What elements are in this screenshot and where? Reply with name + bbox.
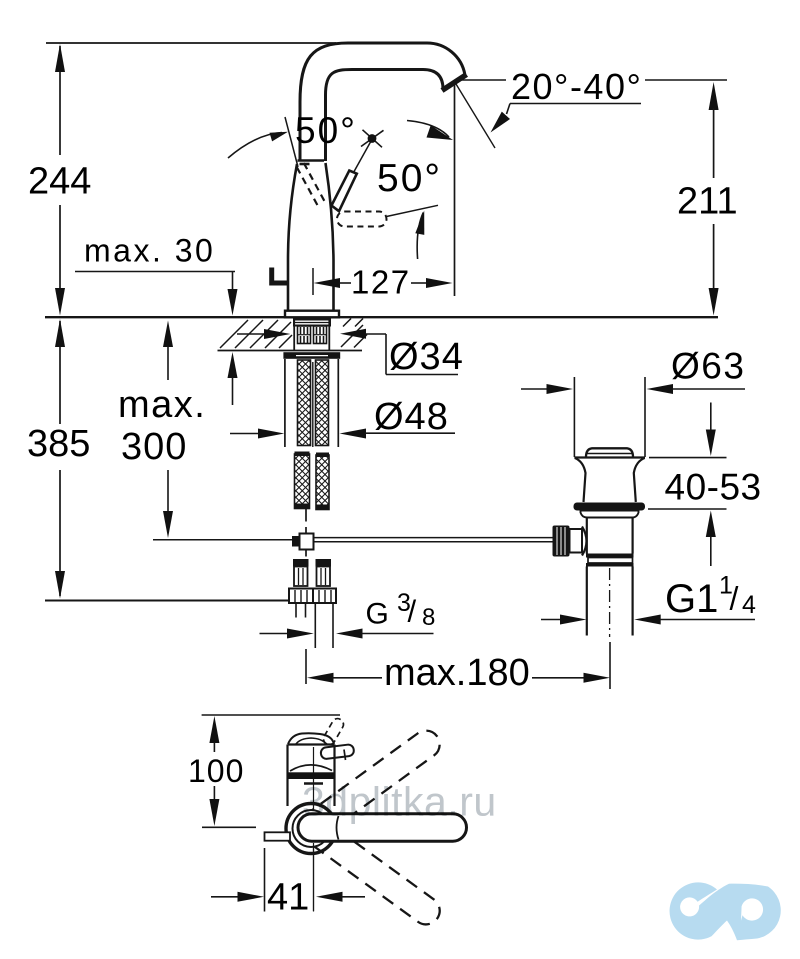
handle horizontal axis line xyxy=(387,205,439,216)
pivot cross xyxy=(361,130,384,146)
dimension 40-53 extension lines xyxy=(649,457,727,459)
bottom tick (handle centerline) xyxy=(202,826,256,828)
max.300 lower line + arrow xyxy=(167,470,169,513)
threaded tube right xyxy=(314,326,327,344)
countertop deck line xyxy=(45,316,718,318)
base plate xyxy=(285,311,339,318)
solid handle top view xyxy=(298,814,467,841)
dimension max.180 xyxy=(305,649,307,684)
hose envelope lines xyxy=(284,359,286,447)
drain flange xyxy=(574,503,646,511)
drain upper body xyxy=(581,511,639,518)
pull rod clevis xyxy=(292,536,300,547)
spout joint line xyxy=(298,159,325,162)
pop-up rod hook xyxy=(272,281,289,286)
dimension 385 vertical line xyxy=(59,321,61,424)
svg-text:/: / xyxy=(730,581,739,617)
dark band xyxy=(288,772,335,779)
svg-text:Ø63: Ø63 xyxy=(671,346,745,387)
joint arc xyxy=(290,765,332,771)
joint tick xyxy=(300,163,310,166)
svg-text:max.180: max.180 xyxy=(384,652,530,694)
arrow down 385 xyxy=(55,571,65,599)
spout head top view dome xyxy=(288,733,334,744)
shank outer envelope xyxy=(293,318,295,351)
max.30 leader underline xyxy=(75,271,235,273)
svg-text:300: 300 xyxy=(121,426,187,468)
drain pop-up cap xyxy=(586,448,633,457)
max.300 upper arrow xyxy=(163,321,173,348)
20-40 underline xyxy=(510,103,641,105)
svg-text:50°: 50° xyxy=(295,110,357,151)
svg-text:50°: 50° xyxy=(377,157,442,200)
tip face angled reference line xyxy=(456,84,495,148)
svg-text:max. 30: max. 30 xyxy=(84,233,215,269)
flexible hose lower left xyxy=(295,454,310,509)
svg-text:G1: G1 xyxy=(665,577,718,621)
svg-text:4: 4 xyxy=(742,591,756,619)
flexible hose upper left xyxy=(298,360,311,446)
curved arrow 50 deg left xyxy=(228,133,282,159)
curved arrow 50 deg from below xyxy=(417,213,423,260)
svg-text:3dplitka.ru: 3dplitka.ru xyxy=(302,779,497,825)
knob stem xyxy=(570,529,583,553)
body rectangle top view xyxy=(288,743,335,745)
flexible hose lower right xyxy=(316,455,329,510)
connector nut right xyxy=(313,589,336,604)
svg-text:20°-40°: 20°-40° xyxy=(511,66,642,107)
top tick line (spout tip level) xyxy=(202,714,340,716)
locknut under deck xyxy=(283,352,340,359)
svg-text:40-53: 40-53 xyxy=(665,467,762,508)
svg-text:127: 127 xyxy=(351,264,411,301)
leader line to 20-40 label xyxy=(456,79,506,81)
drain Ø63 extension lines xyxy=(573,377,575,457)
svg-text:G: G xyxy=(366,598,389,631)
handle axis thin line xyxy=(354,139,373,173)
40-53 lower arrow xyxy=(706,511,716,538)
faucet body left edge xyxy=(288,164,297,311)
arrow up 385 xyxy=(55,319,65,347)
handle solid lever xyxy=(332,171,357,212)
dimension G3/8 xyxy=(260,633,288,635)
dimension 41 xyxy=(264,848,266,912)
dimension Ø63 xyxy=(521,388,547,390)
svg-text:8: 8 xyxy=(422,604,435,631)
dimension 244 vertical line xyxy=(59,46,61,155)
svg-text:385: 385 xyxy=(27,423,90,465)
arrow up 244 xyxy=(55,44,65,72)
curved arrow 50 deg to vertical line xyxy=(407,121,449,138)
max.30 vertical below deck xyxy=(232,377,234,405)
dimension 127 xyxy=(312,268,314,295)
dimension 211 vertical xyxy=(709,82,719,110)
small tick below band xyxy=(304,782,323,784)
drain shoulder xyxy=(574,456,645,458)
spout tip vertical extension line xyxy=(454,82,456,296)
G3/8 connector right xyxy=(316,559,332,567)
dimension Ø34 arrows xyxy=(237,333,265,335)
arrow down to deck top xyxy=(228,289,238,316)
supply tube stubs xyxy=(295,603,297,618)
extension line at pull-rod level xyxy=(153,539,292,541)
G3/8 connector left xyxy=(293,559,309,567)
dashed handle position lower xyxy=(292,808,445,929)
svg-text:Ø48: Ø48 xyxy=(374,396,449,438)
max.30 vertical above deck xyxy=(232,272,234,292)
baseline under hoses xyxy=(45,600,289,602)
body top view centerline xyxy=(313,747,315,911)
dimension 100 xyxy=(209,716,219,743)
deck underside line xyxy=(218,350,363,352)
solid side pin xyxy=(320,744,354,759)
svg-text:211: 211 xyxy=(677,181,738,223)
tailpipe centerline xyxy=(609,568,611,637)
drain body xyxy=(586,518,588,554)
horizontal pop-up rod xyxy=(314,537,554,539)
dashed mini lever up xyxy=(322,717,346,747)
shank washer under base xyxy=(294,320,330,326)
handle tilt reference line xyxy=(285,117,298,167)
spout outer profile xyxy=(300,43,465,161)
deck hatching left xyxy=(220,320,292,348)
threaded tube left xyxy=(298,326,311,344)
valve boss inner circle xyxy=(293,810,330,847)
svg-text:100: 100 xyxy=(188,753,244,789)
faucet body right edge xyxy=(326,163,334,311)
spout inner profile xyxy=(326,70,444,162)
arrow up to deck underside xyxy=(228,352,238,378)
svg-text:/: / xyxy=(408,594,417,629)
knurled adjuster knob xyxy=(553,526,570,557)
arrow down 244 xyxy=(55,288,65,316)
handle collar arc xyxy=(337,816,339,840)
deck hatching right xyxy=(341,319,367,348)
svg-text:max.: max. xyxy=(118,384,206,426)
svg-text:41: 41 xyxy=(267,877,309,919)
40-53 upper arrow xyxy=(710,403,712,433)
dashed handle position upper xyxy=(292,725,445,846)
dimension G1 1/4 xyxy=(541,619,561,621)
drain tailpipe xyxy=(586,567,588,636)
dimension Ø48 arrows xyxy=(230,433,259,435)
flexible hose upper right xyxy=(316,360,329,446)
drain lower joint xyxy=(586,554,634,558)
pull rod stub top view xyxy=(265,832,291,840)
connector nut left xyxy=(289,589,313,604)
20-40 leader arrowhead xyxy=(491,112,511,133)
pull rod between hoses xyxy=(312,362,314,447)
pull rod lower segments xyxy=(305,509,307,522)
handle horizontal dashed position xyxy=(337,212,387,227)
svg-text:Ø34: Ø34 xyxy=(389,336,464,378)
svg-text:244: 244 xyxy=(28,161,91,203)
spout tip face xyxy=(442,75,467,91)
handle dashed position lines xyxy=(297,167,319,208)
valve boss outer circle xyxy=(286,804,336,854)
drain neck sides xyxy=(575,458,586,502)
lever ball joint xyxy=(582,527,587,556)
top extension line (max height reference) xyxy=(46,42,336,44)
logo bottom right xyxy=(670,882,781,940)
